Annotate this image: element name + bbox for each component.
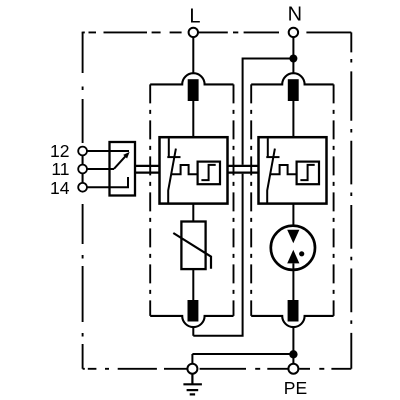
svg-text:12: 12 <box>50 141 69 161</box>
wire fuse F2 to N-link corner <box>192 327 194 336</box>
terminal 11 <box>78 165 87 174</box>
left edge solid run through signal terminals <box>82 147 84 193</box>
SPD unit U1 box left <box>160 137 228 203</box>
fuse F1 body <box>188 79 199 101</box>
node PE junction <box>289 350 297 358</box>
K1 blade <box>114 155 126 168</box>
wire U2 to spark gap <box>292 204 294 231</box>
K1 arrowhead <box>123 152 129 159</box>
U1 step curve <box>201 165 215 180</box>
spark gap F2 circle <box>271 226 315 270</box>
remote contact box K1 <box>110 142 136 196</box>
fuse body bottom right <box>288 300 299 322</box>
svg-text:PE: PE <box>284 378 307 398</box>
terminal PE <box>288 364 298 374</box>
wire fuse F1 to U1 <box>192 101 194 138</box>
spark gap top electrode <box>287 230 299 243</box>
wire spark gap to bottom fuse F4 <box>292 263 294 300</box>
terminal 14 <box>78 183 87 192</box>
U1 inner step box <box>198 162 220 185</box>
disconnector line with arc, bottom left <box>150 316 233 327</box>
wire L terminal to fuse F1 <box>192 32 194 73</box>
U1 disconnect tick <box>167 156 180 158</box>
spark gap bottom electrode <box>287 250 299 264</box>
spark gap dot <box>299 251 304 256</box>
ground symbol <box>183 374 202 395</box>
wire fuse F3 to U2 <box>292 101 294 138</box>
terminal N <box>289 28 298 37</box>
PE rail <box>192 353 293 355</box>
SPD unit U2 box right <box>259 137 327 203</box>
wire N to left-path link <box>193 59 293 336</box>
varistor diagonal <box>173 233 211 269</box>
mechanical link K1 to U1 <box>134 165 161 174</box>
fuse body top right <box>288 79 299 101</box>
PE drop <box>292 354 294 365</box>
U1 surge pulse waveform <box>171 165 198 174</box>
mechanical link U1 to U2 <box>227 165 260 174</box>
U1 top stub <box>168 139 170 158</box>
wire terminal 14 to contact stub <box>83 177 128 187</box>
terminal ground <box>187 364 197 374</box>
wire varistor to bottom fuse F2 <box>192 269 194 300</box>
U2 step curve <box>300 165 314 180</box>
inner dashed box left path <box>150 84 233 316</box>
U2 disconnect tick <box>266 156 279 158</box>
terminal L <box>189 28 198 37</box>
wire terminal 12 to contact <box>83 150 129 152</box>
ground riser <box>191 354 193 365</box>
disconnector line with arc, top right fuse <box>251 73 333 84</box>
top edge <box>83 31 352 34</box>
svg-text:14: 14 <box>50 178 70 198</box>
disconnector line with arc, top left fuse <box>150 73 233 84</box>
U2 top stub <box>267 139 269 158</box>
U2 inner step box <box>297 162 319 185</box>
varistor RV1 body <box>181 222 205 270</box>
bottom edge <box>83 368 352 370</box>
terminal 12 <box>78 147 87 156</box>
svg-text:L: L <box>189 6 200 28</box>
outer device boundary dash-dot box <box>83 32 352 369</box>
svg-text:N: N <box>288 4 302 26</box>
inner dashed box right path <box>251 84 333 316</box>
U2 surge pulse waveform <box>270 165 297 174</box>
U1 disconnect blade <box>168 149 176 204</box>
svg-text:11: 11 <box>51 159 69 179</box>
wire U1 to varistor <box>192 204 194 222</box>
node N junction <box>289 55 297 63</box>
disconnector line with arc, bottom right <box>251 316 333 327</box>
U2 disconnect blade <box>267 149 275 204</box>
wire fuse F4 to PE node <box>292 327 294 354</box>
fuse body bottom left <box>188 300 199 322</box>
wire terminal 11 to contact pivot <box>83 168 114 170</box>
right edge <box>350 32 352 368</box>
left edge <box>82 32 84 368</box>
wire N terminal to fuse F3 <box>292 32 294 73</box>
